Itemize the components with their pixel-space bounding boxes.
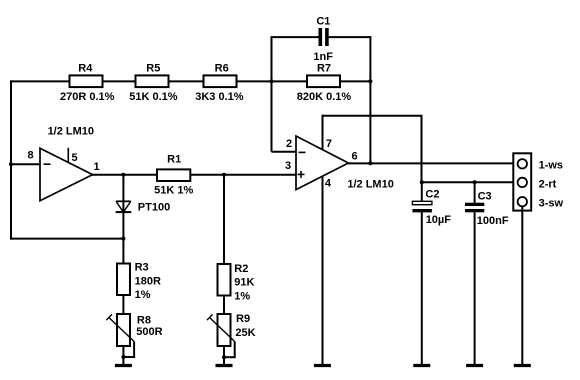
svg-text:1%: 1%: [234, 291, 250, 303]
svg-text:PT100: PT100: [138, 202, 170, 214]
trimmer R9: [207, 313, 256, 357]
wire: C2 bottom stem: [421, 212, 423, 364]
svg-text:R6: R6: [215, 63, 229, 75]
ground (R9): [216, 364, 233, 367]
wire: op-amp U1 output to R1: [92, 174, 157, 176]
wire: pin 4 to ground: [322, 177, 324, 365]
svg-text:820K 0.1%: 820K 0.1%: [297, 91, 352, 103]
svg-text:1: 1: [94, 161, 100, 173]
wire: pin 7 right vertical: [421, 116, 423, 183]
wire: pin 7 top horizontal: [322, 115, 423, 117]
wire: op-amp U2 output to connector: [348, 162, 518, 164]
svg-text:2-rt: 2-rt: [539, 179, 557, 191]
svg-text:500R: 500R: [136, 326, 162, 338]
svg-text:1/2 LM10: 1/2 LM10: [347, 179, 393, 191]
resistor R3: [117, 262, 161, 301]
wire: R1 to op-amp U2 pin 3: [190, 174, 296, 176]
node: PT100 top junction: [121, 173, 125, 177]
ground (C2): [413, 364, 430, 367]
capacitor C3: [465, 191, 509, 227]
svg-text:100nF: 100nF: [477, 215, 509, 227]
node: bottom left junction: [121, 237, 125, 241]
wire: R2 to R9: [223, 296, 225, 315]
resistor R4: [60, 63, 115, 103]
wire: top rail horizontal: [10, 80, 371, 82]
ground (op-amp U2 pin 4): [314, 364, 331, 367]
ground (C3): [466, 364, 483, 367]
resistor R1: [154, 153, 193, 196]
svg-text:51K 0.1%: 51K 0.1%: [129, 91, 178, 103]
svg-text:3-sw: 3-sw: [539, 198, 564, 210]
resistor R6: [195, 63, 244, 103]
wire: C1 left vertical (node to pin 2): [271, 37, 273, 152]
wire: pin 7 tick: [322, 115, 324, 150]
trimmer R8: [106, 314, 162, 357]
node: C2 top junction: [420, 180, 424, 184]
svg-text:51K 1%: 51K 1%: [154, 184, 193, 196]
svg-text:R2: R2: [234, 263, 248, 275]
wire: feedback right vertical: [369, 36, 371, 163]
op-amp U2 (1/2 LM10 right): [296, 136, 394, 191]
svg-text:25K: 25K: [235, 327, 255, 339]
capacitor C2: [412, 189, 451, 226]
wire: C2 top stem: [421, 182, 423, 201]
svg-text:2: 2: [286, 138, 292, 150]
svg-text:R5: R5: [146, 63, 160, 75]
resistor R5: [129, 63, 178, 103]
node: R8 wiper junction: [121, 355, 125, 359]
wire: op-amp U1 pin 8 input: [10, 163, 41, 165]
svg-text:3: 3: [285, 160, 291, 172]
wire: R8 to ground: [122, 346, 124, 365]
wire: bottom left horizontal: [10, 238, 123, 240]
svg-text:1nF: 1nF: [313, 51, 333, 63]
connector J1: [513, 153, 531, 210]
svg-text:270R 0.1%: 270R 0.1%: [60, 91, 115, 103]
wire: C1 top left horizontal: [271, 36, 319, 38]
wire: connector pin 3 to ground: [521, 206, 523, 364]
svg-text:R1: R1: [167, 153, 181, 165]
wire: C3 top stem: [474, 182, 476, 203]
node: R2 top junction: [222, 173, 226, 177]
svg-text:R7: R7: [317, 63, 331, 75]
node: R7 left junction: [270, 79, 274, 83]
svg-text:5: 5: [71, 152, 77, 164]
svg-text:8: 8: [27, 150, 33, 162]
resistor R2: [218, 263, 255, 303]
node: R7 right junction: [368, 79, 372, 83]
wire: PT100 branch vertical: [122, 175, 124, 264]
svg-text:3K3 0.1%: 3K3 0.1%: [195, 91, 244, 103]
node: R9 wiper junction: [222, 355, 226, 359]
resistor R7: [297, 63, 352, 103]
wire: C1 top right horizontal: [329, 36, 372, 38]
wire: C2 C3 rail to connector pin 2: [422, 181, 518, 183]
wire: op-amp U2 pin 2 input: [272, 151, 297, 153]
wire: R2 branch vertical: [223, 175, 225, 264]
wire: R9 to ground: [223, 346, 225, 365]
ground (connector pin 3): [514, 364, 531, 367]
svg-text:6: 6: [352, 150, 358, 162]
svg-text:C3: C3: [478, 191, 492, 203]
svg-text:180R: 180R: [135, 275, 161, 287]
wire: R3 to R8: [122, 295, 124, 314]
svg-text:R8: R8: [137, 315, 151, 327]
node: C3 top junction: [473, 180, 477, 184]
svg-text:7: 7: [326, 138, 332, 150]
capacitor C1: [313, 16, 333, 63]
svg-text:C2: C2: [425, 189, 439, 201]
svg-text:1-ws: 1-ws: [539, 159, 563, 171]
svg-text:R9: R9: [236, 313, 250, 325]
svg-text:C1: C1: [316, 16, 330, 28]
sensor PT100: [116, 201, 171, 213]
svg-text:R3: R3: [135, 262, 149, 274]
wire: C3 bottom stem: [474, 212, 476, 364]
node: left rail input junction: [9, 162, 13, 166]
wire: left rail vertical: [10, 80, 12, 239]
node: feedback output junction: [368, 161, 372, 165]
svg-text:1/2 LM10: 1/2 LM10: [48, 125, 94, 137]
svg-text:R4: R4: [78, 63, 93, 75]
svg-text:91K: 91K: [234, 277, 254, 289]
svg-text:10µF: 10µF: [426, 214, 452, 226]
svg-text:4: 4: [325, 178, 332, 190]
svg-text:1%: 1%: [135, 289, 151, 301]
op-amp U1 (1/2 LM10 left): [40, 125, 94, 201]
ground (R8): [115, 364, 132, 367]
